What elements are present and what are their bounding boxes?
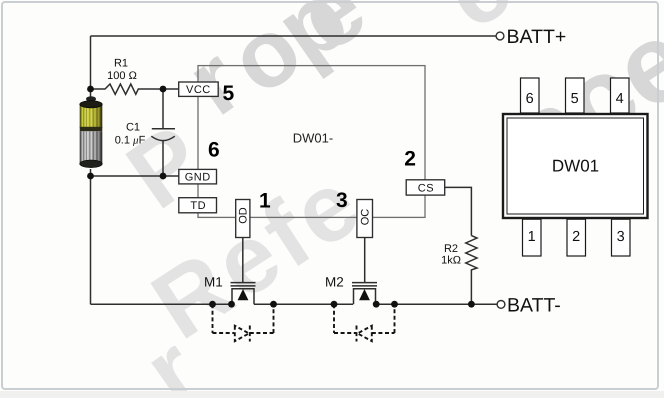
wire bottom rail middle segment bbox=[254, 303, 353, 305]
pin TD bbox=[179, 198, 217, 213]
node M1 body diode cathode junction bbox=[270, 301, 277, 308]
resistor R2 bbox=[466, 236, 477, 305]
terminal BATT+ bbox=[496, 32, 504, 40]
svg-text:5: 5 bbox=[571, 91, 579, 107]
package pin 4 bbox=[611, 78, 630, 113]
transistor M2 bbox=[352, 283, 377, 305]
svg-text:2: 2 bbox=[404, 148, 416, 171]
svg-text:CS: CS bbox=[418, 182, 434, 194]
pin VCC bbox=[179, 82, 219, 96]
pin GND bbox=[179, 169, 217, 184]
svg-text:OC: OC bbox=[359, 209, 371, 226]
IC package DW01 bbox=[503, 78, 648, 256]
node M1 source junction bbox=[228, 301, 235, 308]
svg-text:BATT-: BATT- bbox=[507, 294, 561, 316]
wire bottom rail left segment bbox=[91, 303, 234, 305]
svg-text:OD: OD bbox=[238, 207, 250, 224]
svg-text:4: 4 bbox=[616, 91, 624, 107]
wire battery positive up to top rail bbox=[90, 36, 92, 97]
battery BT1 bbox=[80, 96, 103, 167]
wire OC pin to M2 gate bbox=[364, 238, 366, 283]
node M2 drain junction bbox=[373, 301, 380, 308]
svg-text:BATT+: BATT+ bbox=[507, 26, 567, 48]
svg-text:0.1 μF: 0.1 μF bbox=[115, 135, 146, 147]
wire CS pin to R2 bbox=[445, 187, 472, 235]
package pin 2 bbox=[567, 219, 586, 256]
svg-text:DW01: DW01 bbox=[552, 157, 599, 176]
svg-text:M2: M2 bbox=[325, 275, 344, 290]
svg-text:100 Ω: 100 Ω bbox=[107, 70, 137, 82]
wire battery negative to C1 node bbox=[91, 175, 164, 177]
svg-text:6: 6 bbox=[526, 91, 534, 107]
wire C1 bottom bbox=[162, 141, 164, 176]
node M1 body diode anode junction bbox=[209, 301, 216, 308]
wire C1 top bbox=[162, 89, 164, 128]
pin OD bbox=[236, 200, 250, 238]
node battery negative junction bbox=[87, 173, 94, 180]
package pin 6 bbox=[521, 78, 540, 113]
node battery positive / R1 junction bbox=[87, 86, 94, 93]
svg-text:1: 1 bbox=[528, 229, 536, 245]
svg-text:DW01-: DW01- bbox=[293, 131, 333, 146]
package pin 3 bbox=[612, 219, 631, 256]
svg-text:GND: GND bbox=[185, 172, 211, 184]
package pin 1 bbox=[523, 219, 542, 256]
wire C1 to GND pin bbox=[163, 175, 180, 177]
resistor R1 bbox=[91, 84, 181, 94]
capacitor C1 bbox=[152, 128, 175, 130]
svg-text:1kΩ: 1kΩ bbox=[441, 255, 461, 267]
svg-text:C1: C1 bbox=[126, 122, 140, 134]
wire battery negative down to bottom rail bbox=[90, 169, 92, 304]
package pin 5 bbox=[566, 78, 585, 113]
node M2 body diode cathode junction bbox=[331, 301, 338, 308]
node C1 / GND junction bbox=[160, 173, 167, 180]
svg-text:M1: M1 bbox=[204, 275, 223, 290]
svg-text:6: 6 bbox=[208, 139, 220, 162]
svg-text:R2: R2 bbox=[444, 243, 458, 255]
body diode of M1 bbox=[213, 304, 274, 341]
wire OD pin to M1 gate bbox=[242, 238, 244, 283]
node R2 / BATT- junction bbox=[468, 301, 475, 308]
node R1 / C1 / VCC junction bbox=[160, 86, 167, 93]
svg-text:5: 5 bbox=[223, 82, 235, 105]
node M2 body diode anode junction bbox=[391, 301, 398, 308]
svg-text:3: 3 bbox=[336, 189, 348, 212]
pin OC bbox=[357, 200, 373, 238]
wire top rail to BATT+ bbox=[91, 35, 497, 37]
terminal BATT- bbox=[497, 301, 505, 309]
svg-text:TD: TD bbox=[190, 200, 206, 212]
svg-text:1: 1 bbox=[259, 190, 271, 213]
svg-text:3: 3 bbox=[617, 229, 625, 245]
pin CS bbox=[406, 180, 445, 195]
wire bottom rail right segment to BATT- bbox=[376, 303, 498, 305]
svg-text:2: 2 bbox=[572, 229, 580, 245]
svg-text:R1: R1 bbox=[114, 58, 128, 70]
svg-text:VCC: VCC bbox=[186, 84, 211, 96]
IC U1 DW01- outline bbox=[198, 66, 425, 218]
body diode of M2 bbox=[334, 304, 395, 341]
transistor M1 bbox=[231, 283, 256, 305]
